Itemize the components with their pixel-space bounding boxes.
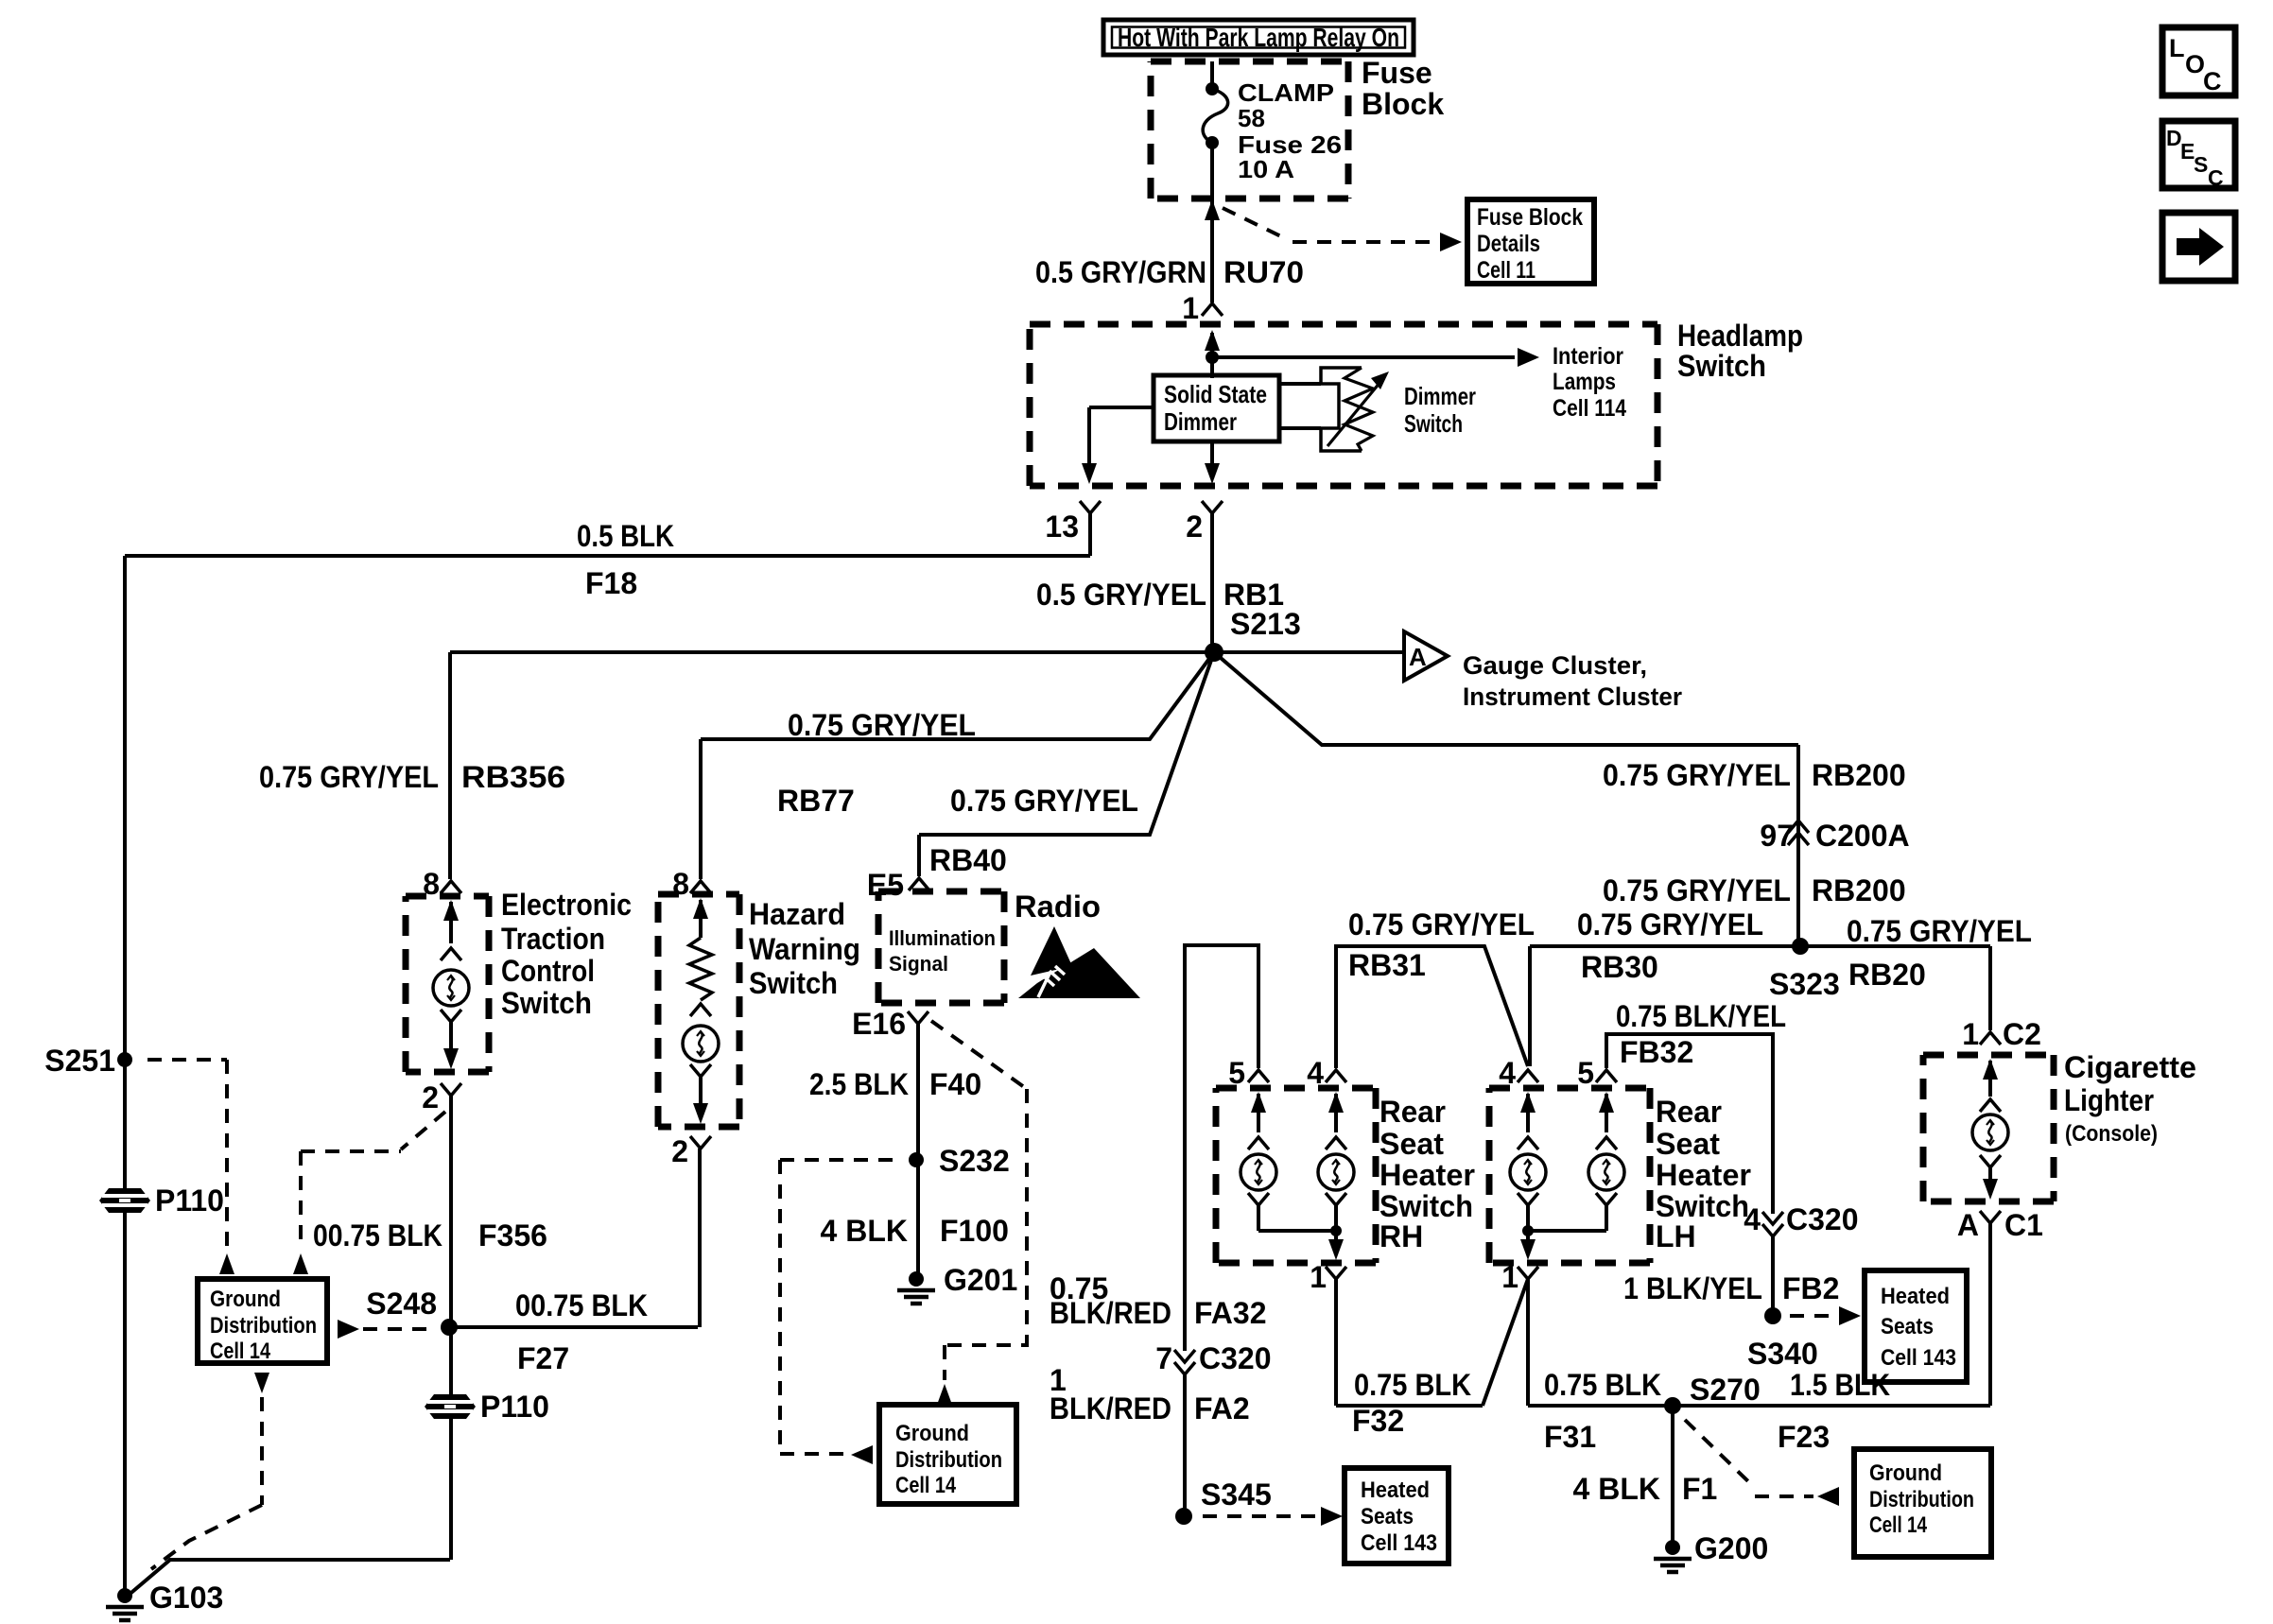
svg-text:A: A <box>1409 643 1427 671</box>
svg-text:RU70: RU70 <box>1223 255 1304 289</box>
svg-text:Cell 114: Cell 114 <box>1553 395 1626 422</box>
svg-text:Solid State: Solid State <box>1164 380 1267 408</box>
svg-text:RB20: RB20 <box>1848 958 1926 992</box>
svg-text:0.75 GRY/YEL: 0.75 GRY/YEL <box>1577 907 1763 942</box>
svg-text:Seat: Seat <box>1656 1127 1720 1161</box>
svg-text:C200A: C200A <box>1815 819 1910 853</box>
svg-text:0.75 GRY/YEL: 0.75 GRY/YEL <box>788 708 976 742</box>
svg-text:G201: G201 <box>944 1263 1017 1297</box>
svg-text:L: L <box>2169 34 2185 62</box>
svg-text:Switch: Switch <box>1656 1189 1749 1223</box>
svg-text:Lamps: Lamps <box>1553 369 1616 395</box>
svg-text:2: 2 <box>1186 510 1203 544</box>
svg-text:Hot With Park Lamp Relay On: Hot With Park Lamp Relay On <box>1118 23 1399 52</box>
svg-text:Radio: Radio <box>1015 890 1101 924</box>
svg-text:0.75 GRY/YEL: 0.75 GRY/YEL <box>1603 873 1791 907</box>
svg-text:S: S <box>2194 152 2208 177</box>
svg-text:F27: F27 <box>517 1341 569 1375</box>
svg-text:0.75 GRY/YEL: 0.75 GRY/YEL <box>1847 914 2032 948</box>
svg-text:RB356: RB356 <box>461 760 565 794</box>
svg-text:BLK/RED: BLK/RED <box>1050 1391 1171 1425</box>
svg-text:Cell 11: Cell 11 <box>1477 257 1536 284</box>
svg-text:F40: F40 <box>929 1067 981 1101</box>
svg-text:Switch: Switch <box>749 966 838 1000</box>
svg-text:A: A <box>1957 1208 1979 1242</box>
svg-text:RB30: RB30 <box>1581 950 1658 984</box>
svg-text:4 BLK: 4 BLK <box>821 1214 908 1248</box>
svg-text:S248: S248 <box>366 1287 437 1321</box>
svg-text:E16: E16 <box>852 1007 906 1041</box>
svg-text:CLAMP: CLAMP <box>1238 78 1334 107</box>
svg-text:E5: E5 <box>867 868 904 902</box>
svg-text:FB2: FB2 <box>1782 1271 1839 1305</box>
svg-text:C320: C320 <box>1786 1202 1859 1236</box>
svg-text:Heated: Heated <box>1881 1284 1950 1309</box>
svg-text:1: 1 <box>1182 291 1199 325</box>
svg-text:RB40: RB40 <box>929 843 1007 877</box>
svg-text:C: C <box>2208 165 2224 190</box>
svg-text:Headlamp: Headlamp <box>1677 319 1803 353</box>
svg-text:Cell 14: Cell 14 <box>895 1473 957 1498</box>
svg-text:Heater: Heater <box>1656 1158 1751 1192</box>
svg-text:F1: F1 <box>1682 1472 1717 1506</box>
svg-text:Cell 143: Cell 143 <box>1881 1345 1956 1371</box>
svg-text:Dimmer: Dimmer <box>1164 407 1237 436</box>
svg-text:13: 13 <box>1045 510 1079 544</box>
svg-text:Switch: Switch <box>501 986 592 1020</box>
svg-text:F100: F100 <box>940 1214 1009 1248</box>
svg-text:S270: S270 <box>1690 1373 1761 1407</box>
svg-text:C2: C2 <box>2003 1017 2041 1051</box>
svg-text:Block: Block <box>1362 87 1444 121</box>
svg-text:0.75 GRY/YEL: 0.75 GRY/YEL <box>1348 907 1535 942</box>
svg-text:Seat: Seat <box>1379 1127 1444 1161</box>
svg-text:Heater: Heater <box>1379 1158 1475 1192</box>
svg-text:0.5 GRY/GRN: 0.5 GRY/GRN <box>1035 255 1206 289</box>
svg-text:S251: S251 <box>44 1044 115 1078</box>
svg-text:2: 2 <box>422 1080 439 1114</box>
svg-text:4 BLK: 4 BLK <box>1573 1472 1660 1506</box>
svg-text:S323: S323 <box>1769 967 1840 1001</box>
svg-text:S232: S232 <box>939 1144 1010 1178</box>
svg-text:Electronic: Electronic <box>501 888 632 922</box>
svg-text:1: 1 <box>1962 1017 1979 1051</box>
svg-text:Ground: Ground <box>1869 1460 1942 1486</box>
svg-text:S340: S340 <box>1747 1337 1818 1371</box>
svg-text:F23: F23 <box>1778 1420 1830 1454</box>
svg-text:Signal: Signal <box>889 952 948 976</box>
svg-text:Distribution: Distribution <box>1869 1487 1974 1512</box>
svg-text:Rear: Rear <box>1379 1095 1446 1129</box>
svg-text:O: O <box>2185 50 2205 78</box>
svg-text:0.75 GRY/YEL: 0.75 GRY/YEL <box>950 784 1138 818</box>
svg-text:1: 1 <box>1501 1260 1518 1294</box>
svg-text:F32: F32 <box>1352 1404 1404 1438</box>
svg-text:(Console): (Console) <box>2065 1121 2158 1147</box>
svg-text:Switch: Switch <box>1677 349 1766 383</box>
svg-text:RB31: RB31 <box>1348 948 1426 982</box>
svg-text:P110: P110 <box>480 1390 549 1424</box>
svg-text:4: 4 <box>1744 1202 1761 1236</box>
svg-text:Heated: Heated <box>1361 1477 1430 1503</box>
svg-text:0.75 BLK: 0.75 BLK <box>1354 1368 1471 1402</box>
svg-text:Instrument Cluster: Instrument Cluster <box>1463 682 1682 711</box>
svg-text:Cigarette: Cigarette <box>2064 1050 2196 1084</box>
svg-text:1.5 BLK: 1.5 BLK <box>1790 1368 1890 1402</box>
svg-text:Hazard: Hazard <box>749 897 845 931</box>
svg-text:Rear: Rear <box>1656 1095 1722 1129</box>
svg-text:2: 2 <box>671 1134 688 1168</box>
svg-text:Seats: Seats <box>1361 1504 1414 1529</box>
svg-text:Cell 14: Cell 14 <box>210 1339 271 1364</box>
svg-text:Fuse: Fuse <box>1362 56 1432 90</box>
svg-text:Control: Control <box>501 954 595 988</box>
svg-text:S345: S345 <box>1201 1477 1272 1512</box>
svg-text:RH: RH <box>1379 1219 1423 1253</box>
svg-text:Lighter: Lighter <box>2064 1083 2154 1117</box>
svg-text:FA2: FA2 <box>1194 1391 1250 1425</box>
svg-text:Cell 143: Cell 143 <box>1361 1530 1437 1556</box>
svg-text:10 A: 10 A <box>1238 155 1294 183</box>
svg-text:00.75 BLK: 00.75 BLK <box>515 1288 648 1322</box>
svg-text:2.5 BLK: 2.5 BLK <box>809 1067 909 1101</box>
svg-text:00.75 BLK: 00.75 BLK <box>313 1218 442 1253</box>
svg-text:1: 1 <box>1310 1260 1327 1294</box>
svg-text:P110: P110 <box>155 1183 224 1218</box>
svg-text:G200: G200 <box>1694 1531 1768 1565</box>
svg-text:Switch: Switch <box>1379 1189 1473 1223</box>
svg-text:Switch: Switch <box>1404 409 1463 438</box>
svg-text:1 BLK/YEL: 1 BLK/YEL <box>1623 1271 1762 1305</box>
svg-text:S213: S213 <box>1230 607 1301 641</box>
svg-text:0.75 GRY/YEL: 0.75 GRY/YEL <box>1603 758 1791 792</box>
svg-text:Seats: Seats <box>1881 1314 1934 1339</box>
svg-text:7: 7 <box>1155 1341 1172 1375</box>
svg-text:Warning: Warning <box>749 932 860 966</box>
svg-text:0.75 GRY/YEL: 0.75 GRY/YEL <box>259 760 439 794</box>
svg-text:Traction: Traction <box>501 922 605 956</box>
svg-text:F18: F18 <box>585 566 637 600</box>
svg-text:F31: F31 <box>1544 1420 1596 1454</box>
svg-text:Dimmer: Dimmer <box>1404 382 1476 410</box>
svg-text:0.75 BLK: 0.75 BLK <box>1544 1368 1661 1402</box>
svg-text:C320: C320 <box>1199 1341 1272 1375</box>
svg-text:LH: LH <box>1656 1219 1696 1253</box>
svg-text:0.5 BLK: 0.5 BLK <box>577 519 674 553</box>
svg-text:58: 58 <box>1238 104 1265 132</box>
svg-text:Details: Details <box>1477 231 1540 257</box>
svg-text:Ground: Ground <box>210 1287 281 1312</box>
svg-text:0.75 BLK/YEL: 0.75 BLK/YEL <box>1616 999 1786 1033</box>
svg-text:Distribution: Distribution <box>895 1447 1002 1473</box>
svg-text:Interior: Interior <box>1553 343 1623 370</box>
svg-text:0.5 GRY/YEL: 0.5 GRY/YEL <box>1036 578 1206 612</box>
svg-text:RB200: RB200 <box>1812 758 1906 792</box>
svg-text:BLK/RED: BLK/RED <box>1050 1296 1171 1330</box>
svg-text:97: 97 <box>1760 819 1794 853</box>
svg-text:Ground: Ground <box>895 1421 969 1446</box>
svg-text:FB32: FB32 <box>1620 1035 1693 1069</box>
svg-text:Illumination: Illumination <box>889 926 996 950</box>
svg-text:RB200: RB200 <box>1812 873 1906 907</box>
svg-text:Distribution: Distribution <box>210 1313 317 1339</box>
svg-text:Gauge Cluster,: Gauge Cluster, <box>1463 651 1647 680</box>
svg-text:Cell 14: Cell 14 <box>1869 1512 1928 1538</box>
svg-text:FA32: FA32 <box>1194 1296 1266 1330</box>
svg-text:C: C <box>2203 67 2222 95</box>
svg-text:F356: F356 <box>478 1218 547 1253</box>
svg-text:C1: C1 <box>2004 1208 2043 1242</box>
svg-text:G103: G103 <box>149 1581 223 1615</box>
svg-text:Fuse Block: Fuse Block <box>1477 204 1583 231</box>
svg-text:RB77: RB77 <box>777 784 855 818</box>
